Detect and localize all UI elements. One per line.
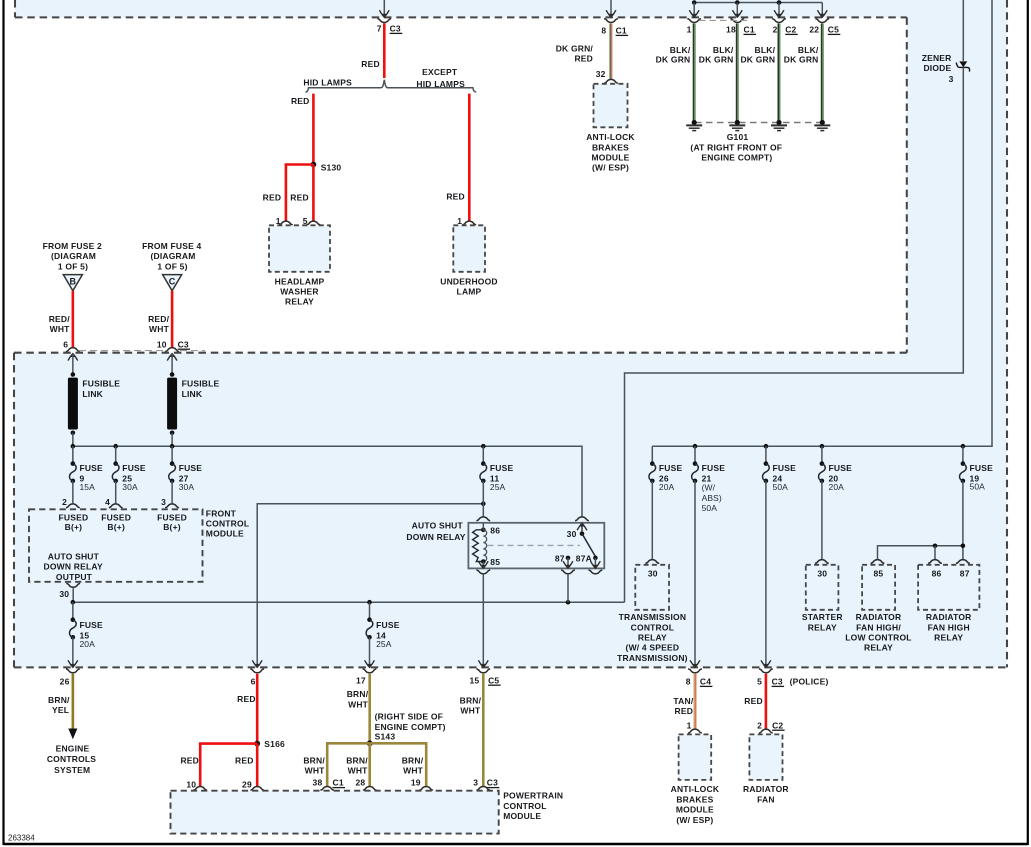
svg-text:BRN/: BRN/ [48, 695, 70, 705]
svg-text:(W/ ESP): (W/ ESP) [676, 815, 713, 825]
connector arc pin 5 [307, 221, 321, 225]
svg-text:FUSE: FUSE [970, 463, 994, 473]
wire: ASD relay pin 85 to bottom boundary [482, 575, 484, 667]
branch brace HID LAMPS / EXCEPT HID LAMPS [305, 80, 476, 92]
svg-text:TAN/: TAN/ [673, 696, 693, 706]
ground symbol [821, 123, 823, 126]
fuse 9 [71, 461, 76, 466]
svg-text:BLK/: BLK/ [670, 45, 691, 55]
connector terminal arc [363, 669, 377, 673]
connector arrow into ASD relay [478, 523, 488, 530]
svg-text:WHT: WHT [403, 766, 424, 776]
fuse 27 [170, 461, 175, 466]
svg-text:MODULE: MODULE [591, 153, 629, 163]
svg-text:20A: 20A [829, 482, 845, 492]
junction dot bus/fuse24 [764, 444, 769, 449]
connector arrow 8 C1 [606, 10, 616, 17]
connector arc pin 32 [604, 79, 618, 83]
svg-text:30: 30 [817, 569, 827, 579]
wire: stub above boundary to connector 7 C3 [383, 0, 385, 16]
svg-text:YEL: YEL [52, 705, 69, 715]
wire: RED feed from connector 7 [383, 23, 386, 78]
svg-text:19: 19 [411, 778, 421, 788]
connector arc PCM pin 19 [419, 786, 433, 790]
svg-text:RED: RED [263, 193, 282, 203]
svg-text:(POLICE): (POLICE) [790, 677, 829, 687]
wire: RED S166 to PCM pin 29 [256, 744, 259, 786]
svg-text:1: 1 [687, 25, 692, 35]
svg-text:BRAKES: BRAKES [676, 794, 713, 804]
connector arc PCM pin 10 [193, 786, 207, 790]
svg-text:FAN: FAN [757, 794, 775, 804]
connector arc radiator fan pin 2 [759, 729, 773, 733]
wire: zener feed down and across [625, 67, 964, 602]
svg-text:2: 2 [757, 720, 762, 730]
connector terminal arc [687, 19, 701, 23]
svg-text:ZENER: ZENER [922, 53, 952, 63]
svg-text:1 OF 5): 1 OF 5) [157, 262, 187, 272]
wire: fuse 27 to front control module [171, 481, 173, 504]
svg-text:15A: 15A [79, 482, 95, 492]
junction dot bus/fuse25 [113, 444, 118, 449]
ASD relay pin 87 [566, 556, 571, 561]
wire: ASD relay pin 87 to output rail [567, 575, 569, 603]
wire: right feed to right fuse bus [652, 0, 992, 446]
svg-text:WHT: WHT [348, 766, 369, 776]
connector arc anti-lock pin 1 [688, 729, 702, 733]
ground tie dashed line G101 [695, 122, 822, 124]
svg-text:RED: RED [290, 193, 309, 203]
svg-text:RED: RED [291, 96, 310, 106]
wire: BLK/DK GRN ground wire [736, 23, 738, 121]
svg-text:10: 10 [157, 339, 167, 349]
ASD relay actuation dashed line [488, 544, 581, 546]
svg-text:UNDERHOOD: UNDERHOOD [440, 276, 498, 286]
dashed boundary: right column left edge [906, 17, 908, 352]
svg-text:38: 38 [313, 778, 323, 788]
connector arrow at bottom boundary 5 C3 [761, 660, 771, 667]
wire: ground bus drop 1 [693, 3, 695, 17]
connector arc rad fan high/low control relay pin 85 [871, 560, 885, 564]
wire: DK GRN/RED to anti-lock brakes module [609, 23, 611, 78]
svg-text:FRONT: FRONT [206, 508, 237, 518]
svg-text:50A: 50A [773, 482, 789, 492]
wire: stub to fusible link 2 [171, 354, 173, 375]
starter relay box [806, 565, 839, 610]
connector tie line C3 [79, 350, 165, 352]
wire: auto shut down relay output rail [73, 601, 625, 603]
connector arrow out of ASD relay pin 85 [478, 561, 488, 568]
wire: top ground bus [694, 2, 822, 4]
svg-text:LINK: LINK [182, 389, 203, 399]
svg-text:3: 3 [161, 497, 166, 507]
connector arrow at top boundary [732, 10, 742, 17]
svg-text:5: 5 [757, 677, 762, 687]
svg-text:MODULE: MODULE [206, 529, 244, 539]
svg-text:6: 6 [63, 339, 68, 349]
wire: fuse 19 to radiator fan relays [962, 481, 964, 559]
connector terminal arc [66, 669, 80, 673]
junction dot on ground bus [777, 0, 782, 5]
svg-text:FROM FUSE 2: FROM FUSE 2 [43, 241, 102, 251]
wire: BRN/WHT S143 right branch [370, 743, 427, 786]
junction dot bus/fuse21 [693, 444, 698, 449]
svg-text:FUSE: FUSE [122, 463, 146, 473]
wire: radiator fan relay branch rail [878, 546, 963, 559]
svg-text:26: 26 [60, 677, 70, 687]
wire: rail to fuse 15 [72, 602, 74, 620]
connector arrow 7 C3 [379, 10, 389, 17]
svg-text:RED: RED [235, 755, 254, 765]
svg-text:50A: 50A [702, 503, 718, 513]
svg-text:OUTPUT: OUTPUT [56, 572, 93, 582]
wire: FCM pin 30 to ASD output rail [72, 588, 74, 602]
svg-text:FUSE: FUSE [490, 463, 514, 473]
svg-text:C1: C1 [333, 778, 344, 788]
front control module box [29, 509, 203, 582]
svg-text:(DIAGRAM: (DIAGRAM [150, 251, 195, 261]
svg-text:C1: C1 [616, 26, 627, 36]
svg-text:WHT: WHT [460, 705, 481, 715]
svg-text:FUSE: FUSE [702, 463, 726, 473]
engine controls system arrow [68, 729, 77, 740]
svg-text:LOW CONTROL: LOW CONTROL [845, 633, 911, 643]
power distribution blue region fill [14, 0, 1007, 667]
svg-text:S166: S166 [264, 739, 285, 749]
svg-text:DOWN RELAY: DOWN RELAY [44, 562, 103, 572]
ASD relay coil [473, 530, 484, 562]
svg-text:7: 7 [377, 24, 382, 34]
wire: fuse 25 to front control module [115, 481, 117, 504]
connector arc FCM pin 30 [66, 583, 80, 587]
svg-text:RED: RED [361, 59, 380, 69]
svg-text:FUSE: FUSE [179, 463, 203, 473]
svg-text:20A: 20A [659, 482, 675, 492]
junction dot bus/fuse11 [481, 444, 486, 449]
svg-text:RELAY: RELAY [638, 633, 667, 643]
svg-text:87A: 87A [576, 553, 592, 563]
wire: fuse 14 to bottom boundary [369, 637, 371, 666]
dashed boundary: top box bottom edge [15, 16, 907, 18]
wire: ASD relay pin 86 stub [482, 523, 484, 530]
wire: fuse 15 to bottom boundary [72, 637, 74, 666]
transmission control relay box [635, 565, 669, 610]
junction dot on ground bus [735, 0, 740, 5]
wire: fusible link 2 to bus [171, 433, 173, 446]
connector arrow into front control module [167, 510, 177, 517]
svg-text:3: 3 [949, 74, 954, 84]
fuse 20 [820, 461, 825, 466]
svg-text:BRN/: BRN/ [303, 755, 325, 765]
svg-text:FUSE: FUSE [659, 463, 683, 473]
connector terminal arc 8 C1 [604, 19, 618, 23]
ground symbol [693, 123, 695, 126]
svg-text:RED/: RED/ [49, 314, 71, 324]
connector arrow at top boundary [689, 10, 699, 17]
svg-text:C2: C2 [785, 25, 796, 35]
connector arrow at bottom boundary [252, 660, 262, 667]
ASD relay switch blade 30-87A [582, 534, 595, 557]
svg-text:BLK/: BLK/ [713, 45, 734, 55]
svg-text:RED: RED [446, 192, 465, 202]
svg-text:BLK/: BLK/ [755, 45, 776, 55]
connector terminal arc [772, 19, 786, 23]
svg-text:FUSE: FUSE [79, 620, 103, 630]
svg-text:POWERTRAIN: POWERTRAIN [503, 791, 563, 801]
wire: BRN/WHT S143 to PCM pin 28 [368, 743, 371, 786]
wire: RED/WHT from triangle B [72, 291, 75, 347]
svg-text:RELAY: RELAY [934, 633, 963, 643]
svg-text:(W/ 4 SPEED: (W/ 4 SPEED [626, 643, 680, 653]
ground symbol [778, 123, 780, 126]
svg-text:(AT RIGHT FRONT OF: (AT RIGHT FRONT OF [690, 143, 782, 153]
svg-text:DK GRN: DK GRN [699, 55, 734, 65]
svg-text:30: 30 [567, 529, 577, 539]
svg-text:8: 8 [601, 26, 606, 36]
wire: ground bus drop 2 [736, 3, 738, 17]
wire: RED to radiator fan [765, 674, 768, 729]
connector arc PCM pin 28 [363, 786, 377, 790]
svg-text:SYSTEM: SYSTEM [54, 765, 90, 775]
svg-text:2: 2 [773, 25, 778, 35]
svg-text:RADIATOR: RADIATOR [926, 612, 972, 622]
svg-text:22: 22 [809, 25, 819, 35]
svg-text:B: B [69, 276, 76, 286]
connector arc pin 10 [165, 348, 179, 352]
svg-text:86: 86 [490, 526, 500, 536]
wire: ASD relay pin 85 stub [482, 562, 484, 569]
connector arrow at bottom boundary pin 15 [478, 660, 488, 667]
junction dot rail/86 [933, 544, 938, 549]
wire: stub to fusible link 1 [72, 354, 74, 375]
fuse 26 [650, 461, 655, 466]
wire: BRN/WHT S143 left branch [327, 743, 370, 786]
connector terminal arc [815, 19, 829, 23]
wire: BLK/DK GRN ground wire [821, 23, 823, 121]
svg-text:20A: 20A [79, 639, 95, 649]
svg-text:B(+): B(+) [107, 522, 125, 532]
wire: RED/WHT from triangle C [171, 291, 174, 347]
svg-text:(DIAGRAM: (DIAGRAM [51, 251, 96, 261]
connector arc rad fan high relay pin 86 [928, 560, 942, 564]
svg-text:RED: RED [574, 53, 593, 63]
svg-text:S130: S130 [321, 162, 342, 172]
junction dot rail/fuse14 [367, 600, 372, 605]
junction dot rail/87 [961, 544, 966, 549]
ASD relay pin 87A [593, 556, 598, 561]
dashed boundary: top box left edge [14, 0, 16, 17]
fusible link 2 [170, 372, 175, 377]
svg-text:4: 4 [105, 497, 110, 507]
connector arc ASD relay pin 86 [476, 517, 490, 521]
connector tie line C1 [699, 19, 747, 21]
svg-text:AUTO SHUT: AUTO SHUT [412, 521, 464, 531]
junction dot fuse11/S166 feed [481, 501, 486, 506]
connector arrow at bottom boundary 8 C4 [690, 660, 700, 667]
svg-text:BRN/: BRN/ [347, 689, 369, 699]
svg-text:RED: RED [744, 696, 763, 706]
connector arc PCM pin 38 [320, 786, 334, 790]
wire: RED S130 straight branch [312, 165, 315, 221]
triangle connector B [63, 275, 82, 291]
wire: bus to fuse 19 [962, 446, 964, 463]
svg-text:ANTI-LOCK: ANTI-LOCK [586, 132, 635, 142]
splice S143 [367, 740, 373, 746]
svg-text:FUSE: FUSE [829, 463, 853, 473]
fuse 14 [367, 617, 372, 622]
svg-text:FROM FUSE 4: FROM FUSE 4 [142, 241, 201, 251]
svg-text:CONTROL: CONTROL [503, 801, 546, 811]
headlamp washer relay box [269, 225, 330, 271]
connector arc transmission control relay [645, 560, 659, 564]
fusible link 1 [71, 372, 76, 377]
svg-text:WHT: WHT [305, 766, 326, 776]
svg-text:C3: C3 [390, 24, 401, 34]
wire: BLK/DK GRN ground wire [692, 23, 694, 121]
wire: bus to fuse 21 [694, 446, 696, 463]
connector arc into front control module [109, 504, 123, 508]
svg-text:WHT: WHT [50, 324, 71, 334]
svg-text:B(+): B(+) [163, 522, 181, 532]
fuse 25 [113, 461, 118, 466]
wire: fusible link 1 to bus [72, 433, 74, 446]
svg-text:C3: C3 [772, 677, 783, 687]
svg-text:DK GRN: DK GRN [656, 55, 691, 65]
connector arc ASD relay pin 85 [476, 570, 490, 574]
connector arc PCM pin 3 [476, 786, 490, 790]
wire: RED except-HID branch [468, 94, 471, 221]
svg-text:25A: 25A [490, 482, 506, 492]
svg-text:STARTER: STARTER [802, 612, 843, 622]
junction dot bus/link2 [170, 444, 175, 449]
svg-text:WASHER: WASHER [280, 287, 319, 297]
svg-text:FAN HIGH: FAN HIGH [928, 622, 970, 632]
powertrain control module box [171, 791, 499, 834]
svg-text:CONTROLS: CONTROLS [47, 754, 96, 764]
connector terminal arc [250, 669, 264, 673]
svg-text:RED: RED [237, 694, 256, 704]
svg-text:RADIATOR: RADIATOR [856, 612, 902, 622]
svg-text:B(+): B(+) [65, 522, 83, 532]
wire: bus to fuse 27 [171, 446, 173, 463]
wire: RED S166 left branch [200, 744, 257, 786]
junction dot on ground bus [692, 0, 697, 5]
svg-text:15: 15 [469, 675, 479, 685]
svg-text:85: 85 [490, 557, 500, 567]
connector arrow at bottom boundary [365, 660, 375, 667]
svg-text:RADIATOR: RADIATOR [743, 784, 789, 794]
svg-text:18: 18 [726, 25, 736, 35]
wire: bus to fuse 9 [72, 446, 74, 463]
wire: fuse 20 to starter relay [821, 481, 823, 559]
svg-text:10: 10 [186, 779, 196, 789]
radiator fan high/low control relay box [862, 565, 895, 610]
wire: bus to fuse 25 [115, 446, 117, 463]
connector terminal arc [730, 19, 744, 23]
svg-text:FUSE: FUSE [79, 463, 103, 473]
svg-text:(W/ ESP): (W/ ESP) [592, 163, 629, 173]
svg-text:RED: RED [675, 706, 694, 716]
auto shut down relay box [468, 523, 604, 569]
wire: BRN/WHT ASD relay 85 to PCM pin 3 [482, 674, 485, 786]
radiator fan box [749, 734, 782, 780]
connector arc starter relay [815, 560, 829, 564]
page border frame [2, 0, 4, 845]
splice S166 [254, 741, 260, 747]
svg-text:FUSIBLE: FUSIBLE [182, 378, 220, 388]
ground symbol [736, 123, 738, 126]
anti-lock brakes module box (bottom) [679, 734, 712, 780]
connector arc pin 6 [66, 348, 80, 352]
wire: RED HID lamps branch [312, 94, 315, 165]
svg-text:WHT: WHT [149, 324, 170, 334]
svg-text:DK GRN/: DK GRN/ [556, 44, 594, 54]
svg-text:C1: C1 [744, 25, 755, 35]
svg-text:BLK/: BLK/ [798, 45, 819, 55]
wire: fuse 24 to bottom boundary [765, 481, 767, 667]
svg-text:2: 2 [62, 497, 67, 507]
svg-text:RED: RED [180, 755, 199, 765]
svg-text:3: 3 [473, 778, 478, 788]
connector arrow at top boundary [774, 10, 784, 17]
svg-text:LAMP: LAMP [457, 287, 482, 297]
connector arrow at bottom boundary [68, 660, 78, 667]
connector terminal arc 7 C3 [377, 19, 391, 23]
svg-text:ABS): ABS) [702, 493, 722, 503]
triangle connector C [163, 275, 182, 291]
svg-text:FUSIBLE: FUSIBLE [82, 378, 120, 388]
svg-text:25A: 25A [376, 639, 392, 649]
connector terminal arc [476, 669, 490, 673]
svg-text:RELAY: RELAY [808, 622, 837, 632]
connector arc PCM pin 29 [250, 786, 264, 790]
svg-text:BRN/: BRN/ [460, 695, 482, 705]
svg-text:TRANSMISSION: TRANSMISSION [619, 612, 687, 622]
svg-text:C3: C3 [178, 339, 189, 349]
connector arrow into middle box [68, 354, 78, 361]
wire: bus to fuse 20 [821, 446, 823, 463]
connector arc rad fan high relay pin 87 [956, 560, 970, 564]
junction dot bus/fuse20 [820, 444, 825, 449]
wire: left B+ bus [73, 446, 582, 517]
svg-text:C4: C4 [700, 677, 711, 687]
wire: BLK/DK GRN ground wire [777, 23, 779, 121]
svg-text:C5: C5 [828, 25, 839, 35]
svg-text:CONTROL: CONTROL [631, 622, 674, 632]
connector arrow into front control module [68, 510, 78, 517]
svg-text:MODULE: MODULE [503, 811, 541, 821]
svg-text:1 OF 5): 1 OF 5) [58, 262, 88, 272]
connector arrow at top boundary [817, 10, 827, 17]
svg-text:WHT: WHT [348, 699, 369, 709]
svg-text:29: 29 [242, 779, 252, 789]
svg-text:ENGINE COMPT): ENGINE COMPT) [701, 153, 772, 163]
svg-text:86: 86 [932, 569, 942, 579]
wire: right feed with zener diode (upper) [962, 0, 964, 61]
svg-text:DIODE: DIODE [923, 63, 951, 73]
svg-text:BRAKES: BRAKES [592, 142, 629, 152]
svg-text:50A: 50A [970, 482, 986, 492]
underhood lamp box [453, 225, 485, 271]
svg-text:87: 87 [960, 569, 970, 579]
svg-text:FUSE: FUSE [773, 463, 797, 473]
wire: drop to radiator fan high relay pin 86 [934, 546, 936, 559]
svg-text:RELAY: RELAY [864, 643, 893, 653]
svg-text:MODULE: MODULE [676, 805, 714, 815]
wire: TAN/RED to anti-lock brakes module [693, 674, 695, 729]
svg-text:32: 32 [596, 69, 606, 79]
svg-text:C3: C3 [487, 778, 498, 788]
